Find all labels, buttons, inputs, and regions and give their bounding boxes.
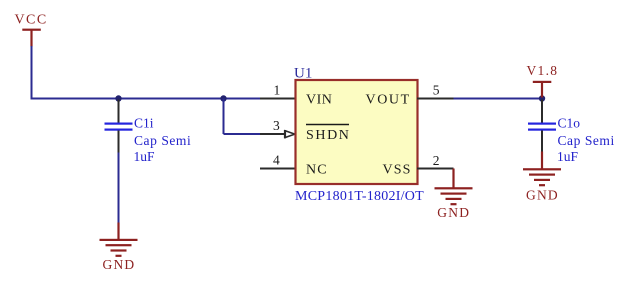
svg-text:MCP1801T-1802I/OT: MCP1801T-1802I/OT: [295, 189, 424, 204]
svg-text:Cap Semi: Cap Semi: [134, 133, 191, 148]
wire main rail: [31, 98, 261, 100]
capacitor C1o: [528, 100, 556, 153]
svg-text:VIN: VIN: [306, 93, 332, 108]
svg-text:5: 5: [433, 83, 440, 98]
pin 3 (SHDN) with input arrow: [260, 118, 295, 138]
svg-text:U1: U1: [294, 66, 312, 82]
ground GND under Clo: [523, 152, 561, 203]
pin 1 (VIN): [260, 83, 296, 99]
power symbol VCC: [15, 13, 48, 47]
wire Cli to ground: [118, 153, 120, 224]
junction node at Clo: [539, 95, 545, 101]
svg-text:4: 4: [273, 153, 280, 168]
svg-text:VSS: VSS: [383, 163, 412, 178]
ground GND under Cli: [100, 223, 138, 273]
power symbol V1.8: [527, 63, 559, 98]
svg-text:C1o: C1o: [558, 116, 581, 131]
svg-text:V1.8: V1.8: [527, 63, 559, 78]
svg-text:1: 1: [274, 83, 281, 98]
capacitor C1i: [105, 100, 133, 153]
pin 5 (VOUT): [417, 83, 454, 99]
pin 4 (NC): [260, 153, 296, 169]
svg-text:SHDN: SHDN: [306, 128, 351, 143]
junction node at Cli: [115, 95, 121, 101]
svg-text:GND: GND: [526, 188, 559, 203]
svg-text:2: 2: [433, 153, 440, 168]
svg-text:GND: GND: [103, 257, 136, 272]
junction node at SHDN branch: [220, 95, 226, 101]
svg-text:1uF: 1uF: [134, 149, 156, 164]
ground GND at VSS: [435, 169, 473, 221]
wire VCC vertical: [31, 46, 33, 99]
wire SHDN branch vertical: [223, 99, 225, 135]
wire VOUT to V1.8: [454, 98, 543, 100]
svg-text:Cap Semi: Cap Semi: [558, 133, 615, 148]
IC U1 body: [296, 80, 418, 184]
svg-text:GND: GND: [437, 205, 470, 220]
pin 2 (VSS): [417, 153, 454, 169]
svg-text:1uF: 1uF: [557, 149, 579, 164]
svg-text:3: 3: [273, 118, 280, 133]
pin name SHDN with overline: [306, 125, 351, 144]
svg-text:NC: NC: [306, 163, 328, 178]
wire SHDN branch horizontal: [224, 133, 261, 135]
svg-text:VOUT: VOUT: [366, 93, 411, 108]
svg-text:VCC: VCC: [15, 13, 48, 28]
svg-text:C1i: C1i: [134, 116, 154, 131]
